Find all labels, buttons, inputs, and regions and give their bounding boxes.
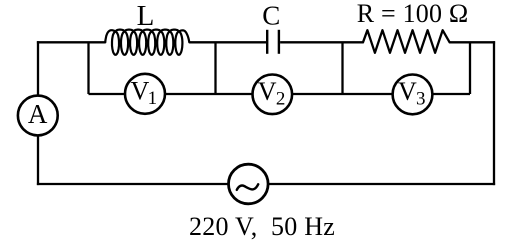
svg-text:220 V, 50 Hz: 220 V, 50 Hz	[189, 212, 335, 241]
svg-text:V: V	[258, 77, 277, 106]
wire left vertical lower	[37, 135, 39, 185]
svg-text:A: A	[28, 99, 48, 129]
wire bottom rail right of source	[268, 183, 495, 185]
junction vertical between C and R sections	[341, 42, 343, 94]
junction vertical at left of L section	[87, 42, 89, 94]
svg-text:R = 100 Ω: R = 100 Ω	[357, 0, 469, 28]
wire voltmeter rail left segment	[89, 93, 126, 95]
wire voltmeter rail between V2 and V3	[292, 93, 393, 95]
junction vertical between L and C sections	[214, 42, 216, 94]
svg-text:L: L	[137, 0, 155, 32]
resistor R zigzag	[363, 30, 450, 53]
svg-text:V: V	[398, 77, 417, 106]
ammeter A	[18, 96, 58, 136]
wire top rail right segment	[450, 41, 496, 43]
wire right vertical	[493, 41, 495, 185]
inductor L coil	[105, 30, 189, 55]
wire voltmeter rail right segment	[432, 93, 470, 95]
capacitor C plates	[267, 30, 279, 54]
voltmeter V1	[125, 74, 165, 114]
wire top rail left segment	[37, 41, 106, 43]
voltmeter V3	[393, 75, 433, 115]
svg-text:2: 2	[276, 89, 286, 110]
wire left vertical upper	[37, 41, 39, 95]
wire voltmeter rail between V1 and V2	[165, 93, 253, 95]
voltmeter V2	[252, 75, 292, 115]
svg-text:1: 1	[148, 88, 158, 109]
svg-text:3: 3	[416, 89, 426, 110]
wire bottom rail left of source	[37, 183, 229, 185]
AC source	[229, 164, 269, 204]
wire top rail between L and C	[189, 41, 266, 43]
svg-text:C: C	[262, 1, 280, 31]
wire top rail between C and R	[280, 41, 363, 43]
junction vertical at right of R section	[469, 42, 471, 94]
